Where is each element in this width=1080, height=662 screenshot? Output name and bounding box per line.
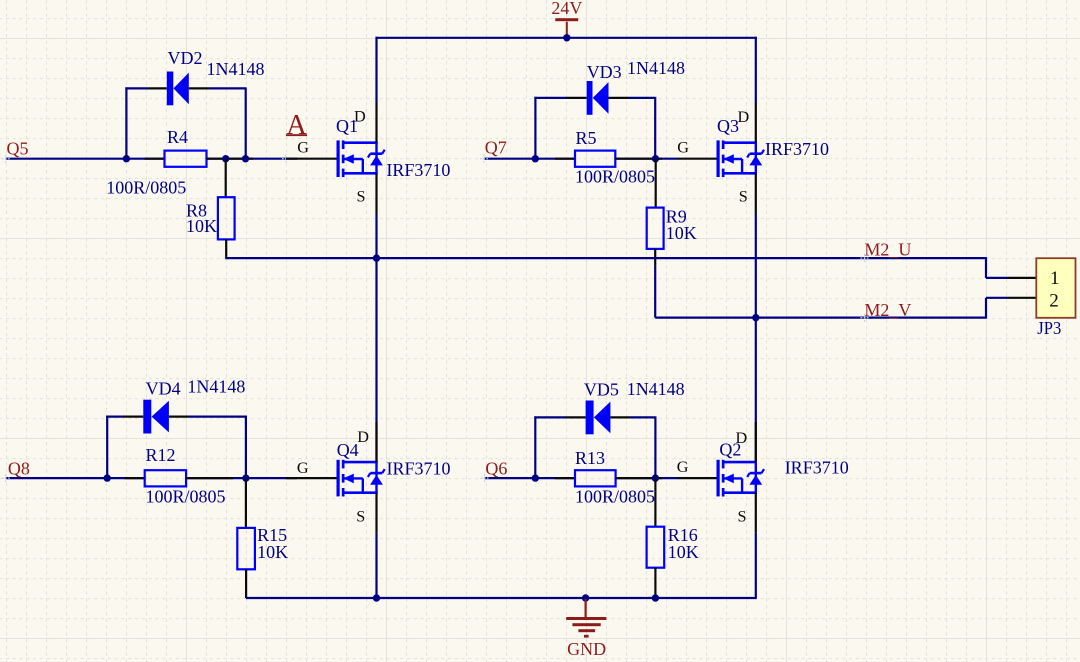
value 100R/0805 (R4) [106, 178, 186, 198]
svg-text:S: S [357, 188, 366, 206]
wire VD2 loop right leg [209, 87, 246, 158]
svg-text:Q7: Q7 [485, 138, 507, 158]
resistor R15 [237, 528, 255, 569]
value IRF3710 (Q3) [765, 139, 829, 159]
wire R16 branch lower [654, 568, 656, 598]
svg-text:10K: 10K [257, 542, 288, 562]
value 10K (R16) [668, 542, 699, 562]
wire R9 branch upper [655, 159, 657, 208]
svg-text:100R/0805: 100R/0805 [575, 167, 655, 187]
wire VD4 loop right leg [189, 416, 246, 479]
designator Q3 [717, 116, 739, 136]
svg-text:Q6: Q6 [485, 458, 507, 478]
value 1N4148 (VD2) [207, 59, 265, 79]
pin Q1 gate [286, 158, 337, 160]
pin VD5 anode wire [566, 416, 586, 418]
junction 24V stub [563, 34, 570, 41]
pin JP3.1 [1007, 277, 1036, 279]
svg-text:1N4148: 1N4148 [187, 376, 245, 396]
designator Q2 [719, 440, 741, 460]
pin VD2 anode wire [148, 87, 167, 89]
pin name D (Q2) [736, 429, 748, 447]
wire R15 branch lower [245, 569, 247, 598]
wire M2_V [655, 298, 1007, 319]
wire Q2 source to GND [755, 533, 757, 598]
resistor R16 [647, 527, 665, 568]
svg-text:1N4148: 1N4148 [207, 59, 265, 79]
svg-text:Q4: Q4 [337, 440, 359, 460]
pin VD4 cathode wire [169, 416, 189, 418]
designator Q4 [337, 440, 359, 460]
svg-text:S: S [738, 508, 747, 526]
net label M2_V [861, 300, 912, 322]
label R12 [146, 445, 176, 465]
svg-text:JP3: JP3 [1037, 318, 1061, 338]
pin Q2 drain [755, 422, 757, 462]
svg-text:S: S [739, 188, 748, 206]
pin name S (Q4) [356, 508, 365, 526]
pin Q3 gate [678, 158, 718, 160]
pin name G (Q1) [297, 139, 309, 157]
wire Q5 net horizontal [6, 158, 297, 160]
value 1N4148 (VD4) [187, 376, 245, 396]
value 10K (R9) [666, 223, 697, 243]
pin VD5 cathode wire [610, 416, 630, 418]
transistor Q1 IRF3710 [337, 140, 385, 177]
pin R5 left [555, 158, 575, 160]
pin name D (Q4) [357, 428, 369, 446]
pin name D (Q3) [738, 108, 750, 126]
junction R16 / GND [652, 594, 659, 601]
resistor R13 [575, 470, 616, 486]
svg-text:IRF3710: IRF3710 [765, 139, 829, 159]
connector JP3 [1036, 258, 1075, 318]
wire R15 branch upper [245, 478, 247, 528]
power port 24V [551, 0, 582, 38]
svg-text:24V: 24V [551, 0, 582, 18]
svg-text:Q5: Q5 [7, 139, 29, 159]
pin Q3 source [755, 173, 757, 213]
pin R5 right [615, 158, 662, 160]
pin number 2 (JP3) [1049, 291, 1059, 312]
value 10K (R15) [257, 542, 288, 562]
svg-text:G: G [297, 139, 309, 157]
pin Q1 drain [375, 103, 377, 143]
value 1N4148 (VD3) [627, 58, 685, 78]
svg-text:IRF3710: IRF3710 [785, 457, 849, 477]
value 1N4148 (VD5) [627, 379, 685, 399]
svg-text:R4: R4 [167, 127, 188, 147]
resistor R4 [165, 151, 207, 167]
pin R12 left [125, 477, 145, 479]
label VD2 [168, 48, 203, 68]
value IRF3710 (Q2) [785, 457, 849, 477]
wire VD4 loop left leg [106, 416, 123, 479]
svg-text:M2_V: M2_V [864, 300, 911, 320]
svg-text:2: 2 [1049, 291, 1059, 312]
svg-text:100R/0805: 100R/0805 [575, 487, 655, 507]
junction Q3 source / M2_V [752, 314, 759, 321]
svg-text:10K: 10K [668, 542, 699, 562]
svg-text:VD5: VD5 [584, 380, 619, 400]
wire 24V bus [376, 37, 757, 39]
pin JP3.2 [1007, 297, 1036, 299]
pin VD3 anode wire [567, 97, 587, 99]
svg-text:10K: 10K [186, 216, 217, 236]
net label Q6 [481, 458, 508, 482]
pin Q4 gate [286, 477, 337, 479]
wire VD5 loop left leg [534, 416, 565, 478]
svg-text:D: D [357, 428, 369, 446]
pin R13 left [555, 477, 575, 479]
wire 24V bus left drop [375, 37, 377, 103]
junction VD4/R15 tap [242, 474, 249, 481]
junction Q4 source / GND [373, 594, 380, 601]
wire Q7 net horizontal [484, 158, 678, 160]
pin R12 right [186, 477, 233, 479]
svg-text:D: D [354, 108, 366, 126]
svg-text:A: A [286, 110, 307, 141]
svg-text:G: G [677, 139, 689, 157]
label R4 [167, 127, 188, 147]
svg-text:GND: GND [567, 639, 606, 659]
diode VD3 [587, 81, 609, 115]
label R13 [575, 448, 605, 468]
wire R9 branch lower [654, 249, 656, 318]
diode VD4 [143, 400, 169, 434]
transistor Q3 IRF3710 [717, 140, 765, 177]
svg-text:IRF3710: IRF3710 [386, 160, 450, 180]
svg-text:R13: R13 [575, 448, 605, 468]
svg-text:G: G [297, 459, 309, 477]
transistor Q4 IRF3710 [337, 460, 385, 497]
pin R4 right [207, 158, 254, 160]
junction GND stub [582, 594, 589, 601]
junction VD2 left leg [123, 155, 130, 162]
wire GND bus [246, 597, 757, 599]
net label Q8 [2, 458, 30, 482]
junction VD5 left leg [532, 474, 539, 481]
pin number 1 (JP3) [1050, 268, 1060, 289]
junction VD3 left leg [532, 155, 539, 162]
label R8 [186, 201, 207, 221]
pin name S (Q2) [738, 508, 747, 526]
pin name S (Q1) [357, 188, 366, 206]
svg-text:VD4: VD4 [146, 379, 181, 399]
svg-text:1N4148: 1N4148 [627, 58, 685, 78]
wire VD3 loop right leg [628, 97, 655, 159]
value 100R/0805 (R13) [575, 487, 655, 507]
label VD5 [584, 380, 619, 400]
pin name G (Q3) [677, 139, 689, 157]
label R15 [257, 525, 287, 545]
pin R13 right [616, 477, 662, 479]
wire Q8 net horizontal [6, 477, 297, 479]
svg-text:D: D [736, 429, 748, 447]
wire VD5 loop right leg [630, 416, 655, 478]
svg-text:100R/0805: 100R/0805 [106, 178, 186, 198]
wire M2_U [225, 257, 1007, 278]
svg-text:M2_U: M2_U [864, 240, 911, 260]
junction R8 tap [222, 155, 229, 162]
svg-text:1N4148: 1N4148 [627, 379, 685, 399]
wire R8 branch upper [225, 159, 227, 198]
resistor R12 [145, 470, 186, 486]
svg-text:1: 1 [1050, 268, 1060, 289]
label VD4 [146, 379, 181, 399]
wire 24V bus right drop [755, 37, 757, 103]
resistor R5 [575, 151, 615, 167]
pin Q1 source [375, 173, 377, 213]
junction VD5/R16 tap [652, 474, 659, 481]
wire Q6 net horizontal [485, 477, 678, 479]
svg-text:100R/0805: 100R/0805 [146, 486, 226, 506]
transistor Q2 IRF3710 [717, 460, 765, 497]
value 100R/0805 (R5) [575, 167, 655, 187]
svg-text:Q8: Q8 [8, 458, 30, 478]
label R9 [666, 206, 687, 226]
value IRF3710 (Q1) [386, 160, 450, 180]
pin VD2 cathode wire [189, 87, 209, 89]
net label Q5 [2, 139, 29, 163]
label R5 [576, 128, 597, 148]
svg-text:10K: 10K [666, 223, 697, 243]
pin VD3 cathode wire [609, 97, 629, 99]
wire Q4 source to GND [375, 533, 377, 598]
svg-text:VD2: VD2 [168, 48, 203, 68]
pin name D (Q1) [354, 108, 366, 126]
pin Q4 drain [375, 422, 377, 462]
designator JP3 [1037, 318, 1061, 338]
pin R4 left [145, 158, 165, 160]
wire Q3.S to Q2.D vertical [755, 214, 757, 463]
svg-text:IRF3710: IRF3710 [387, 459, 451, 479]
svg-text:R5: R5 [576, 128, 597, 148]
svg-text:D: D [738, 108, 750, 126]
diode VD2 [167, 72, 189, 106]
label VD3 [587, 62, 622, 82]
resistor R8 [218, 197, 235, 239]
value IRF3710 (Q4) [387, 459, 451, 479]
wire VD2 loop left leg [125, 87, 147, 158]
diode VD5 [586, 401, 611, 435]
junction VD3/R9 tap [652, 155, 659, 162]
svg-text:Q3: Q3 [717, 116, 739, 136]
svg-text:VD3: VD3 [587, 62, 622, 82]
pin Q4 source [375, 493, 377, 533]
wire R8 branch lower [225, 239, 227, 258]
pin Q2 source [755, 493, 757, 533]
svg-text:R12: R12 [146, 445, 176, 465]
net label M2_U [861, 240, 912, 263]
ground symbol GND [566, 599, 606, 659]
designator Q1 [336, 116, 358, 136]
pin name G (Q4) [297, 459, 309, 477]
junction VD4 left leg [104, 474, 111, 481]
pin VD4 anode wire [123, 416, 143, 418]
value 100R/0805 (R12) [146, 486, 226, 506]
value 10K (R8) [186, 216, 217, 236]
wire Q1.S to Q4.D vertical [375, 214, 377, 463]
resistor R9 [647, 208, 664, 249]
svg-text:S: S [356, 508, 365, 526]
net label A [282, 110, 307, 163]
pin Q3 drain [755, 103, 757, 143]
label R16 [668, 525, 698, 545]
junction Q1 source / M2_U [373, 254, 380, 261]
wire VD3 loop left leg [534, 97, 566, 159]
pin name S (Q3) [739, 188, 748, 206]
wire R16 branch upper [654, 478, 656, 527]
junction VD2 right leg [242, 155, 249, 162]
pin name G (Q2) [677, 458, 689, 476]
net label Q7 [480, 138, 507, 163]
pin Q2 gate [678, 477, 718, 479]
svg-text:G: G [677, 458, 689, 476]
